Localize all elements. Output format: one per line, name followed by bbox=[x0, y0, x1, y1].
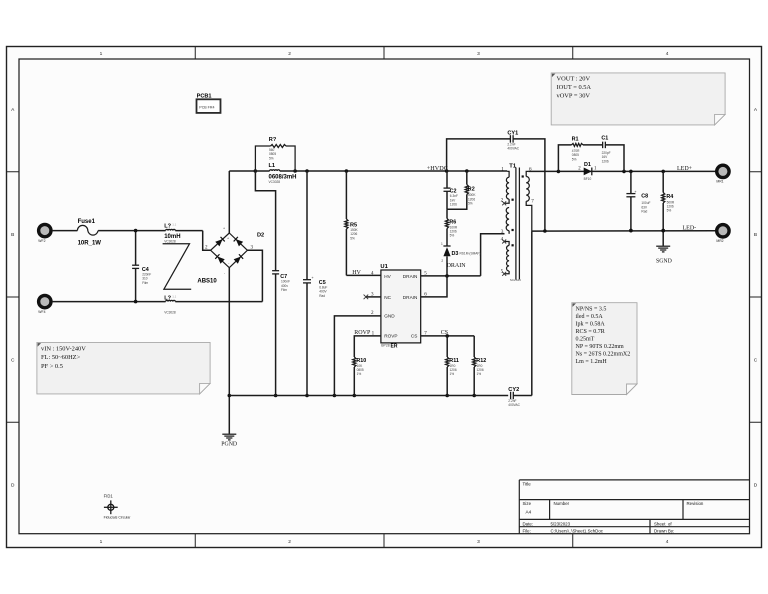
svg-text:+: + bbox=[223, 226, 225, 230]
resistor R11 bbox=[446, 336, 448, 357]
svg-text:vIN : 150V-240V: vIN : 150V-240V bbox=[41, 346, 86, 353]
svg-text:U1: U1 bbox=[380, 264, 388, 270]
svg-text:GND: GND bbox=[384, 314, 395, 319]
svg-text:1.1: 1.1 bbox=[172, 222, 176, 226]
svg-text:NC: NC bbox=[384, 295, 391, 300]
svg-text:DRAIN: DRAIN bbox=[403, 295, 418, 300]
resistor R4 (bleeder) bbox=[662, 171, 664, 192]
svg-text:R4: R4 bbox=[666, 194, 673, 200]
svg-text:BF10: BF10 bbox=[584, 177, 592, 181]
svg-text:10R_1W: 10R_1W bbox=[78, 240, 102, 246]
op-amp / controller IC U1 bbox=[381, 270, 421, 343]
svg-text:C: C bbox=[11, 357, 15, 363]
svg-text:C: C bbox=[754, 357, 758, 363]
connector WF4 (AC neutral in) bbox=[39, 295, 51, 307]
svg-text:Lm = 1.2mH: Lm = 1.2mH bbox=[576, 359, 608, 365]
svg-text:Ns = 26TS 0.22mmX2: Ns = 26TS 0.22mmX2 bbox=[576, 351, 631, 357]
U1 pin 3 no-connect bbox=[366, 296, 381, 298]
svg-text:C:\Users\..\Sheet1.SchDoc: C:\Users\..\Sheet1.SchDoc bbox=[551, 529, 604, 534]
fuse Fuse1 bbox=[77, 225, 98, 235]
svg-text:MR1: MR1 bbox=[716, 180, 723, 184]
svg-text:ROVP: ROVP bbox=[354, 330, 371, 336]
connector MR2 (LED-) bbox=[717, 225, 729, 237]
svg-text:2: 2 bbox=[441, 259, 443, 263]
svg-text:+: + bbox=[227, 237, 229, 241]
svg-text:D: D bbox=[754, 483, 758, 489]
svg-text:R1: R1 bbox=[572, 137, 579, 143]
wire: GND pin 2 bbox=[334, 316, 381, 396]
svg-text:VC3028: VC3028 bbox=[269, 180, 281, 184]
wire: DRAIN net bbox=[421, 275, 481, 277]
svg-text:D1: D1 bbox=[584, 162, 591, 168]
svg-text:3: 3 bbox=[477, 51, 480, 57]
svg-text:L?: L? bbox=[164, 223, 171, 229]
capacitor C8 (output electrolytic) bbox=[630, 171, 632, 193]
svg-text:VOUT : 20V: VOUT : 20V bbox=[557, 75, 591, 82]
svg-text:HV: HV bbox=[352, 270, 361, 276]
common-mode choke L? top winding bbox=[166, 229, 176, 230]
bridge rectifier D2 ABS10 bbox=[211, 233, 248, 268]
svg-text:5%: 5% bbox=[572, 157, 577, 161]
svg-text:1206: 1206 bbox=[450, 203, 457, 207]
svg-text:CS: CS bbox=[441, 330, 448, 336]
wire: bridge - down to ground rail bbox=[228, 268, 230, 434]
svg-text:+HVDC: +HVDC bbox=[427, 165, 448, 172]
connector WF2 (AC line in) bbox=[39, 224, 51, 236]
svg-text:Film: Film bbox=[281, 288, 287, 292]
wire: LED+ rail bbox=[528, 170, 715, 172]
svg-text:1%: 1% bbox=[477, 372, 482, 376]
svg-text:A4: A4 bbox=[526, 510, 532, 515]
svg-text:5%: 5% bbox=[450, 234, 455, 238]
svg-text:RCS = 0.7R: RCS = 0.7R bbox=[576, 329, 605, 335]
svg-text:1%: 1% bbox=[450, 372, 455, 376]
svg-text:DRAIN: DRAIN bbox=[403, 274, 418, 279]
svg-text:400VAC: 400VAC bbox=[508, 403, 520, 407]
svg-text:D3: D3 bbox=[452, 251, 459, 257]
resistor R6 bbox=[445, 219, 448, 229]
note: input spec bbox=[37, 342, 210, 394]
svg-text:1.1: 1.1 bbox=[172, 294, 176, 298]
choke core (Z bar) bbox=[163, 244, 192, 289]
svg-text:5/23/2023: 5/23/2023 bbox=[551, 521, 571, 526]
resistor R1 (snubber) bbox=[558, 145, 571, 172]
svg-text:WF4: WF4 bbox=[38, 310, 45, 314]
svg-text:PGND: PGND bbox=[221, 442, 237, 448]
svg-text:PCB FR4: PCB FR4 bbox=[199, 105, 214, 109]
svg-text:Drawn By:: Drawn By: bbox=[654, 529, 674, 534]
ground SGND bbox=[656, 245, 670, 247]
capacitor CY2 (Y-cap) bbox=[510, 392, 512, 400]
svg-text:FID1: FID1 bbox=[104, 494, 114, 499]
svg-text:Sheet of: Sheet of bbox=[654, 521, 672, 526]
svg-text:WF2: WF2 bbox=[38, 239, 45, 243]
diode D1 (output rectifier) bbox=[584, 168, 592, 176]
wire: AC line bottom bbox=[52, 301, 166, 303]
svg-text:C8: C8 bbox=[641, 194, 648, 200]
svg-text:Date:: Date: bbox=[523, 521, 534, 526]
svg-text:MR2: MR2 bbox=[716, 239, 723, 243]
svg-text:HV: HV bbox=[384, 274, 391, 279]
svg-text:L1: L1 bbox=[269, 163, 276, 169]
svg-text:CY2: CY2 bbox=[508, 387, 519, 393]
svg-text:ER: ER bbox=[391, 343, 398, 349]
svg-text:Rad: Rad bbox=[319, 294, 325, 298]
capacitor C4 (X-cap) bbox=[135, 231, 137, 266]
svg-text:5%: 5% bbox=[350, 236, 355, 240]
svg-text:Film: Film bbox=[142, 281, 148, 285]
svg-text:400VAC: 400VAC bbox=[507, 147, 519, 151]
svg-text:1: 1 bbox=[100, 539, 103, 545]
svg-text:ROVP: ROVP bbox=[384, 334, 397, 339]
ground PGND bbox=[222, 433, 236, 435]
svg-text:LED-: LED- bbox=[683, 225, 697, 231]
note: transformer design bbox=[572, 303, 637, 395]
svg-text:2: 2 bbox=[288, 51, 291, 57]
svg-text:CY1: CY1 bbox=[507, 130, 518, 136]
wire: ROVP pin 1 bbox=[354, 336, 381, 357]
wire: CS net bbox=[421, 335, 475, 337]
svg-text:SC2643: SC2643 bbox=[510, 278, 521, 282]
svg-text:PF > 0.5: PF > 0.5 bbox=[41, 363, 63, 370]
svg-text:3: 3 bbox=[477, 539, 480, 545]
svg-text:VC3028: VC3028 bbox=[164, 311, 176, 315]
svg-text:5%: 5% bbox=[269, 156, 274, 160]
common-mode choke L? bottom winding bbox=[166, 300, 176, 301]
svg-text:C1: C1 bbox=[601, 135, 608, 141]
svg-text:R2: R2 bbox=[468, 186, 475, 192]
svg-text:RS1M-(SMAF): RS1M-(SMAF) bbox=[460, 252, 481, 256]
svg-text:5%: 5% bbox=[667, 209, 672, 213]
T1 aux winding pins 4-5 (unused) bbox=[504, 242, 509, 246]
svg-text:Title: Title bbox=[523, 481, 532, 486]
svg-text:R?: R? bbox=[269, 137, 277, 143]
svg-text:SGND: SGND bbox=[656, 258, 672, 264]
wire: +HVDC rail bbox=[295, 170, 507, 172]
svg-text:NP/NS = 3.5: NP/NS = 3.5 bbox=[576, 307, 607, 313]
diode D3 (clamp) bbox=[446, 256, 448, 276]
svg-text:4: 4 bbox=[666, 539, 669, 545]
svg-text:VC3028: VC3028 bbox=[164, 240, 176, 244]
svg-text:FL: 50~60HZ>: FL: 50~60HZ> bbox=[41, 354, 81, 361]
svg-text:DRAIN: DRAIN bbox=[447, 263, 467, 269]
svg-text:File:: File: bbox=[523, 529, 531, 534]
T1 primary winding pins 1-3 bbox=[507, 171, 509, 177]
capacitor C2 (clamp) bbox=[446, 171, 448, 188]
resistor R12 bbox=[473, 336, 475, 357]
wire: primary ground rail bbox=[229, 395, 508, 397]
svg-text:1: 1 bbox=[441, 242, 443, 246]
resistor R5 (HV startup) bbox=[345, 171, 347, 219]
svg-text:B: B bbox=[754, 232, 757, 238]
resistor R10 bbox=[353, 357, 356, 367]
svg-text:1: 1 bbox=[100, 51, 103, 57]
svg-text:CS: CS bbox=[411, 334, 418, 339]
svg-text:4: 4 bbox=[666, 51, 669, 57]
svg-text:LED+: LED+ bbox=[677, 166, 693, 172]
svg-text:IOUT = 0.5A: IOUT = 0.5A bbox=[557, 84, 592, 91]
svg-text:Fuse1: Fuse1 bbox=[78, 219, 96, 225]
svg-text:0.25mT: 0.25mT bbox=[576, 336, 595, 342]
note: output spec bbox=[551, 73, 725, 125]
capacitor C5 (bulk electrolytic) bbox=[306, 171, 308, 280]
svg-text:1206: 1206 bbox=[602, 159, 609, 163]
svg-text:Fiducials Circular: Fiducials Circular bbox=[104, 516, 132, 520]
wire: AC line top bbox=[52, 230, 78, 232]
svg-text:2: 2 bbox=[288, 539, 291, 545]
svg-text:3: 3 bbox=[501, 229, 504, 235]
svg-text:BP28: BP28 bbox=[381, 343, 389, 347]
inductor L1 bbox=[255, 170, 269, 172]
title block bbox=[519, 480, 749, 534]
svg-text:Revision: Revision bbox=[687, 501, 704, 506]
svg-text:7: 7 bbox=[531, 198, 534, 204]
resistor R2 (clamp) bbox=[447, 195, 467, 210]
svg-text:5%: 5% bbox=[468, 202, 473, 206]
svg-text:D: D bbox=[11, 483, 15, 489]
wire: bridge + up to DC rail bbox=[228, 171, 230, 233]
capacitor C7 (film) bbox=[255, 171, 275, 271]
svg-text:vOVP = 30V: vOVP = 30V bbox=[557, 93, 591, 100]
capacitor CY1 (Y-cap) bbox=[447, 139, 511, 171]
wire: LED- rail bbox=[532, 230, 716, 232]
svg-text:1: 1 bbox=[501, 167, 504, 173]
T1 core bbox=[515, 168, 517, 280]
svg-text:D2: D2 bbox=[257, 233, 264, 239]
svg-text:iled = 0.5A: iled = 0.5A bbox=[576, 314, 604, 320]
svg-text:Rad: Rad bbox=[641, 210, 647, 214]
T1 secondary winding pins 6-7 bbox=[526, 171, 528, 176]
svg-text:Ipk = 0.58A: Ipk = 0.58A bbox=[576, 322, 606, 328]
svg-text:ABS10: ABS10 bbox=[197, 279, 217, 285]
svg-text:Number: Number bbox=[554, 501, 570, 506]
svg-text:NP = 90TS 0.22mm: NP = 90TS 0.22mm bbox=[576, 344, 625, 350]
svg-text:Size: Size bbox=[523, 501, 532, 506]
svg-text:1%: 1% bbox=[357, 372, 362, 376]
resistor R? (snubber across L1) bbox=[255, 146, 270, 171]
capacitor C1 (snubber) bbox=[583, 144, 602, 146]
connector MR1 (LED+) bbox=[717, 165, 729, 177]
svg-text:L?: L? bbox=[164, 295, 171, 301]
svg-text:B: B bbox=[11, 232, 14, 238]
